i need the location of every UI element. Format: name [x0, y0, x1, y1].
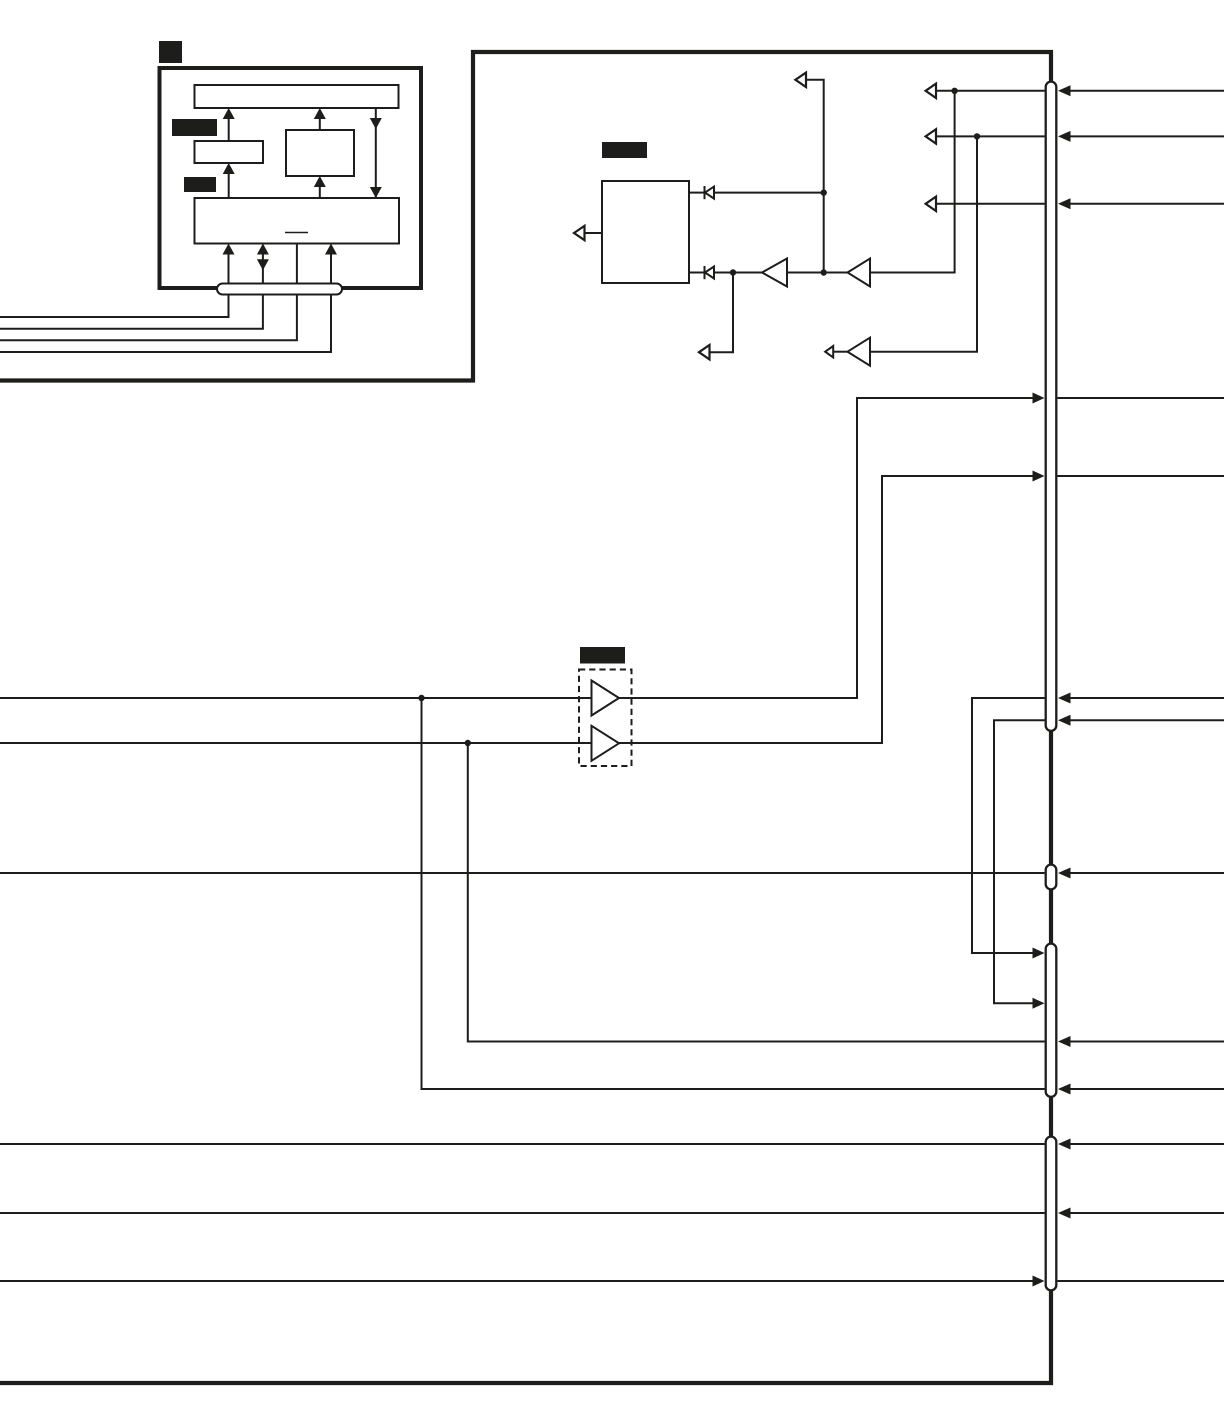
arrowhead into bus y=398 — [1033, 393, 1045, 404]
wire N7 branch down to bus y=1041.5 — [468, 743, 1045, 1042]
right stub y=1144 — [1068, 1143, 1224, 1145]
buffer B1 — [762, 259, 787, 287]
node N1 junction dot — [821, 189, 827, 195]
label (redacted) L2 — [184, 177, 216, 192]
block U1 (CPU) outer box — [160, 68, 422, 288]
right stub y=873 — [1068, 872, 1224, 874]
cable bundle connector CN1 — [217, 284, 342, 295]
bus connector J2 (capsule) — [1046, 865, 1057, 890]
wire D1 to node N1 — [714, 192, 824, 194]
wire IC2 pin to node N1 — [689, 192, 704, 194]
bus connector J1 (capsule) — [1046, 82, 1057, 731]
label (redacted) for IC2 — [602, 142, 647, 158]
off-page connector arrow P2 — [795, 73, 806, 87]
wire loopback L2 from bus y=720.3 to bus y=1003.3 — [994, 720, 1045, 1003]
wire bus line y=90.8 — [936, 90, 1045, 92]
sub-block timer — [286, 130, 354, 176]
right stub y=398 — [1058, 397, 1224, 399]
wire W6 (left input line y=743) — [0, 742, 592, 744]
redacted text underline in I/O block — [285, 232, 308, 234]
off-page connector arrow P1 — [574, 226, 585, 240]
label (redacted) L1 — [172, 119, 217, 136]
dashed buffer-pack box — [579, 670, 632, 767]
node N6 junction dot — [418, 695, 424, 701]
arrowhead into bus y=476 — [1033, 471, 1045, 482]
diode D1 — [704, 186, 706, 199]
buffer B4 — [592, 681, 620, 716]
wire N3 down to off-page arrow — [709, 273, 734, 353]
node N4 junction dot — [951, 88, 957, 94]
sub-block RAM — [195, 141, 264, 163]
bus connector J4 (capsule) — [1046, 1137, 1057, 1291]
node N2 junction dot — [821, 269, 827, 275]
sub-block ROM (top bar) — [195, 85, 399, 108]
wire to off-page arrow at IC2 left — [584, 232, 603, 234]
wire W2 (cable line 2, bidirectional) — [0, 254, 263, 329]
wire B3 apex to off-page arrow — [833, 351, 848, 353]
sub-block I/O port — [195, 198, 400, 244]
wire W4 (cable line 4) — [0, 254, 331, 353]
right stub y=1281 — [1058, 1280, 1224, 1282]
wire riser N1 vertical — [806, 80, 824, 273]
wire loopback L1 from bus y=698 to bus y=953 — [972, 698, 1045, 953]
node N3 junction dot — [730, 269, 736, 275]
wire W7 (left input line y=873) — [0, 872, 1045, 874]
arrow RAM to ROM — [228, 117, 230, 141]
right stub y=203.8 — [1068, 203, 1224, 205]
node N5 junction dot — [974, 133, 980, 139]
arrow I/O to RAM — [228, 172, 230, 198]
wire IC2 pin2 to diode D2 — [689, 272, 704, 274]
off-page connector arrow P5 — [926, 84, 936, 98]
arrow ROM down to I/O (double head) — [375, 108, 377, 198]
wire W5 (left input line y=698) — [0, 697, 592, 699]
label (redacted) for U1 — [159, 41, 182, 63]
wire N6 branch down to bus y=1089 — [422, 698, 1045, 1089]
label (redacted) for buffer pack — [580, 647, 625, 664]
arrow I/O to timer — [319, 185, 321, 198]
buffer B2 — [848, 259, 871, 287]
off-page connector arrow P3 — [699, 345, 710, 359]
wire B2 base to vertical riser — [870, 91, 955, 273]
wire W1 (cable line 1) — [0, 254, 229, 318]
off-page connector arrow P6 — [926, 129, 936, 143]
right stub y=698 — [1068, 697, 1224, 699]
block IC2 (reset IC) — [602, 181, 689, 283]
wire W6 continues buffer B5 out to bus arrow y=476 — [619, 476, 1034, 743]
diode D2 — [704, 266, 706, 279]
wire W9 (left input line y=1213) — [0, 1212, 1045, 1214]
arrowhead into bus y=1003.3 — [1033, 998, 1045, 1009]
node N7 junction dot — [465, 740, 471, 746]
buffer B3 — [848, 338, 871, 366]
wire buffer B3 base to riser x977 — [870, 136, 977, 351]
arrowhead into bus y=953 — [1033, 948, 1045, 959]
right stub y=720.3 — [1068, 719, 1224, 721]
wire B1 to B2 — [787, 272, 848, 274]
arrow timer to ROM — [319, 117, 321, 130]
buffer B5 — [592, 726, 620, 761]
off-page connector arrow P4 — [825, 346, 833, 357]
wire W8 (left input line y=1144) — [0, 1143, 1045, 1145]
wire W5 continues buffer B4 out to bus arrow y=398 — [619, 398, 1034, 698]
right stub y=90.8 — [1068, 90, 1224, 92]
wire W10 (left input line y=1281) with arrow into bus — [0, 1280, 1034, 1282]
bus connector J3 (capsule) — [1046, 944, 1057, 1097]
wire D2 to buffer B1 — [714, 272, 762, 274]
right stub y=1213 — [1068, 1212, 1224, 1214]
wire W3 (cable line 3) — [0, 244, 297, 341]
off-page connector arrow P7 — [926, 197, 936, 211]
wire bus line y=203.8 — [936, 203, 1045, 205]
right stub y=1089 — [1068, 1088, 1224, 1090]
right stub y=136.4 — [1068, 135, 1224, 137]
right stub y=476 — [1058, 475, 1224, 477]
wire bus line y=136.4 — [936, 135, 1045, 137]
right stub y=1041.5 — [1068, 1041, 1224, 1043]
